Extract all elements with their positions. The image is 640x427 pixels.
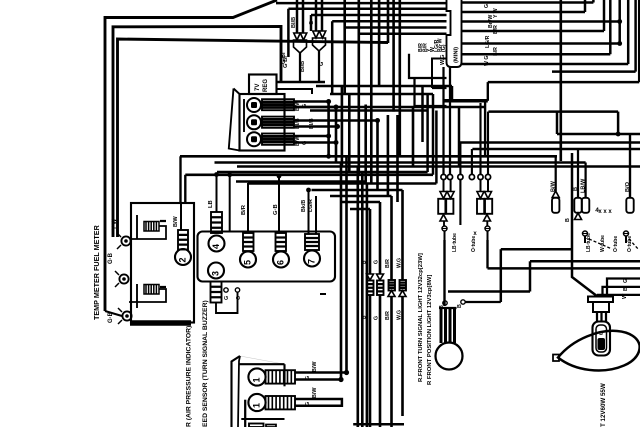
svg-text:B/R: B/R — [385, 259, 391, 268]
svg-text:W.G: W.G — [397, 258, 403, 268]
svg-text:Bk/B: Bk/B — [301, 200, 307, 212]
svg-text:R FRONT POSITION LIGHT 12V3cp[: R FRONT POSITION LIGHT 12V3cp[8W] — [427, 275, 433, 385]
svg-text:B/R: B/R — [385, 311, 391, 320]
svg-text:G.: G. — [484, 2, 490, 8]
svg-text:Bl/B: Bl/B — [295, 118, 301, 129]
svg-text:B: B — [439, 305, 445, 309]
svg-text:7V: 7V — [255, 84, 261, 91]
svg-text:(MINI): (MINI) — [454, 47, 460, 63]
svg-text:LB: LB — [208, 200, 214, 208]
svg-text:B/R: B/R — [493, 47, 499, 56]
svg-text:G: G — [623, 279, 629, 283]
svg-text:W·tube: W·tube — [600, 235, 606, 252]
svg-text:3: 3 — [211, 271, 221, 276]
svg-text:B/R: B/R — [241, 204, 247, 215]
svg-text:LG/R: LG/R — [308, 199, 314, 212]
svg-text:LB/W: LB/W — [581, 178, 587, 193]
svg-text:Bl/B: Bl/B — [291, 17, 297, 28]
svg-text:G·B: G·B — [108, 252, 114, 264]
svg-text:REG: REG — [263, 79, 269, 92]
svg-text:G: G — [224, 296, 230, 300]
svg-text:O·tube: O·tube — [613, 236, 619, 252]
svg-text:B/W: B/W — [312, 387, 318, 398]
svg-text:x x x: x x x — [598, 209, 612, 215]
svg-text:G: G — [374, 260, 380, 264]
svg-text:G: G — [302, 141, 308, 145]
svg-text:T 12V60W 55W: T 12V60W 55W — [600, 383, 607, 427]
svg-text:G·B: G·B — [273, 204, 279, 215]
svg-text:LB·tube: LB·tube — [452, 233, 458, 252]
svg-text:G·B: G·B — [108, 311, 114, 323]
svg-text:B/O: B/O — [625, 181, 631, 192]
svg-text:4: 4 — [211, 244, 221, 249]
svg-text:R.FRONT TURN SIGNAL LIGHT 12V3: R.FRONT TURN SIGNAL LIGHT 12V32cp[23W] — [418, 253, 424, 382]
svg-text:6: 6 — [276, 260, 286, 265]
svg-text:B: B — [573, 187, 579, 191]
svg-text:O·tube: O·tube — [471, 236, 477, 252]
svg-text:1: 1 — [252, 403, 262, 408]
svg-text:B: B — [457, 304, 463, 308]
svg-text:O: O — [236, 295, 242, 300]
svg-text:R (AIR PRESSURE INDICATOR): R (AIR PRESSURE INDICATOR) — [186, 326, 193, 427]
svg-text:G: G — [305, 376, 311, 380]
svg-text:Y W: Y W — [112, 218, 118, 230]
svg-text:W G: W G — [484, 56, 490, 66]
svg-text:1: 1 — [252, 377, 262, 382]
svg-text:2: 2 — [178, 257, 188, 262]
svg-text:LB·tube: LB·tube — [586, 233, 592, 252]
svg-text:B: B — [623, 287, 629, 291]
svg-text:G: G — [319, 62, 325, 66]
svg-text:5: 5 — [243, 260, 253, 265]
svg-text:Bl/B: Bl/B — [300, 61, 306, 72]
svg-text:B: B — [565, 218, 571, 222]
svg-text:B/W: B/W — [173, 216, 179, 228]
svg-text:B/W: B/W — [295, 100, 301, 111]
svg-text:7: 7 — [307, 259, 317, 264]
svg-text:W: W — [622, 293, 628, 299]
svg-text:G: G — [305, 402, 311, 406]
svg-text:(G): (G) — [441, 44, 447, 52]
svg-text:B/W: B/W — [295, 135, 301, 146]
svg-text:W.G: W.G — [397, 310, 403, 320]
svg-text:Bl/B: Bl/B — [309, 118, 315, 129]
svg-text:B/W: B/W — [312, 361, 318, 372]
svg-text:G Bl: G Bl — [281, 52, 287, 64]
svg-text:LG/R: LG/R — [485, 35, 491, 48]
svg-text:W.G: W.G — [440, 55, 446, 65]
svg-text:B/R: B/R — [493, 25, 499, 34]
svg-text:G: G — [374, 316, 380, 320]
svg-text:TEMP METER FUEL METER: TEMP METER FUEL METER — [92, 224, 101, 320]
svg-text:EED SENSOR (TURN SIGNAL BUZZER: EED SENSOR (TURN SIGNAL BUZZER) — [202, 300, 209, 427]
svg-text:O·tube: O·tube — [627, 236, 633, 252]
svg-text:B/W: B/W — [551, 180, 557, 192]
